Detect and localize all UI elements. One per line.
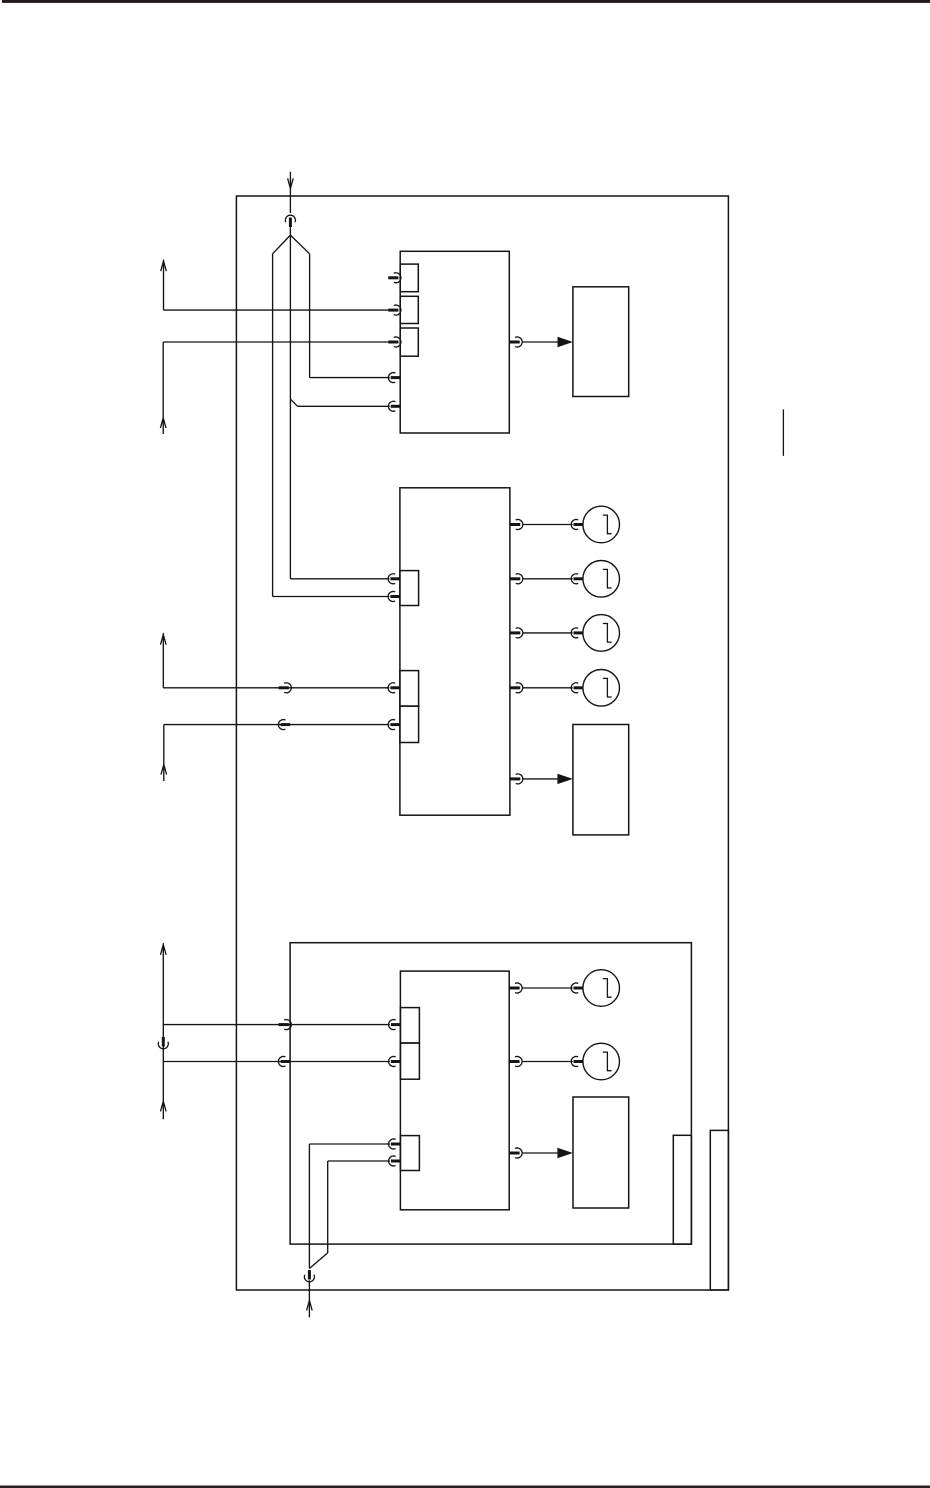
connector lamp L2 (571, 574, 583, 584)
inner section-3 enclosure (290, 943, 691, 1244)
block U2 (400, 488, 510, 815)
wire input D horizontal (163, 1024, 390, 1026)
wire output C dropper (163, 725, 165, 781)
lamp L4 (583, 670, 620, 707)
wire U2 out3 to lamp L3 (523, 632, 573, 634)
wire cable center to PA1 (290, 578, 389, 580)
wire U3 out to lamp L6 (522, 1061, 573, 1063)
stray change-bar segment right of enclosure (782, 409, 784, 456)
wire U3 out to lamp L5 (522, 987, 573, 989)
connector U2 out2 (510, 574, 523, 584)
connector inline trunk (158, 1037, 168, 1049)
outer cabinet enclosure (236, 196, 728, 1290)
arrowhead U1 output (filled) (558, 337, 573, 347)
wire top feed vertical (289, 172, 291, 213)
connector U2 out3 (510, 628, 523, 638)
wire cable left to PA2 (273, 596, 390, 598)
block U3 (400, 971, 509, 1210)
connector U2 out5 (510, 774, 523, 784)
wire cable center conductor down (289, 235, 291, 579)
connector lamp L5 (571, 983, 583, 993)
arrowhead top feed (down) (288, 178, 294, 188)
connector U1 pin5 (388, 401, 400, 411)
connector U2 PA1 (388, 574, 400, 584)
connector U3 out6 (509, 1057, 522, 1067)
arrowhead input B (up) (161, 635, 167, 645)
top page border bar (2, 0, 930, 3)
wire U2 out5 to R2 (523, 778, 558, 780)
arrowhead bottom feed (up) (307, 1300, 313, 1310)
wire U1 output to R1 (522, 341, 558, 343)
connector U3 out7 (509, 1148, 522, 1158)
wire F2 dropper (327, 1161, 329, 1253)
wire U1 pin5 jog diagonal (290, 399, 297, 406)
connector U2 PC (388, 720, 400, 730)
wire U3 out7 to R3 (522, 1152, 558, 1154)
wire F2 merge diagonal (309, 1253, 327, 1269)
lamp L1 (583, 506, 620, 543)
arrowhead input 2 (up) (161, 261, 167, 271)
connector U3 PE (389, 1057, 401, 1067)
lamp L2 (583, 561, 620, 598)
wire trunk left vertical (162, 943, 164, 1119)
narrow duct strip inside inner enclosure (673, 1135, 691, 1244)
indicator box R2 (573, 725, 629, 835)
wire output C horizontal (164, 724, 390, 726)
connector inline JC (278, 720, 290, 730)
connector inline JB (279, 683, 292, 693)
wire input 2 horizontal (164, 309, 389, 311)
connector U2 out1 (510, 520, 523, 530)
wire cable right conductor down (309, 254, 311, 378)
wire cable left conductor down (272, 254, 274, 597)
cable chevron right diagonal (290, 235, 309, 254)
U1 port box P3 (400, 328, 418, 356)
wire input 3 dropper (162, 342, 164, 434)
connector U1 pin4 (388, 373, 400, 383)
connector U1 pin2 (388, 305, 401, 315)
wire F1 horizontal (309, 1143, 390, 1145)
connector J2 bottom cable (304, 1270, 314, 1282)
wire input E horizontal (163, 1061, 390, 1063)
wire input 2 riser (163, 260, 165, 310)
U3 port box PD (400, 1008, 419, 1043)
connector U1 pin3 (388, 337, 401, 347)
wire F1 dropper (308, 1144, 310, 1269)
wire input B horizontal (163, 687, 389, 689)
wire F2 horizontal (328, 1160, 390, 1162)
lamp L6 (583, 1043, 620, 1080)
U3 port box PE (400, 1043, 419, 1079)
connector inline JD wall (279, 1020, 292, 1030)
connector inline JE wall (278, 1057, 290, 1067)
wire U2 out1 to lamp L1 (523, 524, 573, 526)
arrowhead input 3 (up) (160, 418, 166, 428)
arrowhead output C (up) (161, 765, 167, 775)
wire U2 out4 to lamp L4 (523, 687, 573, 689)
arrowhead trunk top (up) (161, 945, 167, 955)
U3 port box PF (400, 1136, 419, 1171)
narrow duct strip inside outer enclosure (710, 1130, 728, 1290)
connector U1 output (510, 337, 523, 347)
arrowhead U2 out5 (filled) (557, 774, 573, 784)
connector U1 pin1 stub (388, 273, 401, 283)
wire input B riser (162, 633, 164, 688)
connector U2 PB (388, 683, 400, 693)
wire input 3 horizontal (163, 341, 388, 343)
indicator box R3 (573, 1097, 629, 1208)
U2 port box PA (400, 571, 419, 606)
connector U3 PF1 (389, 1139, 401, 1149)
U1 port box P2 (400, 296, 418, 323)
wire U1 pin5 horizontal (298, 405, 390, 407)
wire U1 pin4 from cable (310, 377, 390, 379)
connector lamp L3 (571, 628, 583, 638)
connector U2 out4 (510, 683, 523, 693)
connector U3 PF2 (389, 1156, 401, 1166)
lamp L3 (583, 615, 620, 652)
connector U3 out5 (509, 983, 522, 993)
connector lamp L4 (571, 683, 583, 693)
block U1 (400, 251, 509, 433)
connector U3 PD (389, 1020, 401, 1030)
U2 port box PB (400, 671, 419, 707)
indicator box R1 (573, 287, 629, 397)
U2 port box PC (400, 706, 419, 742)
arrowhead trunk bottom (up) (161, 1101, 167, 1111)
connector lamp L6 (571, 1057, 583, 1067)
wire bottom feed vertical (308, 1280, 310, 1317)
connector lamp L1 (571, 520, 583, 530)
connector U2 PA2 (388, 592, 400, 602)
wire J1 to cable apex (289, 226, 291, 235)
wire U2 out2 to lamp L2 (523, 578, 573, 580)
bottom page rule bar (0, 1486, 930, 1488)
arrowhead U3 out7 (filled) (557, 1148, 573, 1158)
U1 port box P1 (400, 264, 418, 292)
connector J1 top cable (285, 215, 295, 227)
cable chevron left diagonal (273, 235, 291, 254)
lamp L5 (583, 970, 620, 1007)
